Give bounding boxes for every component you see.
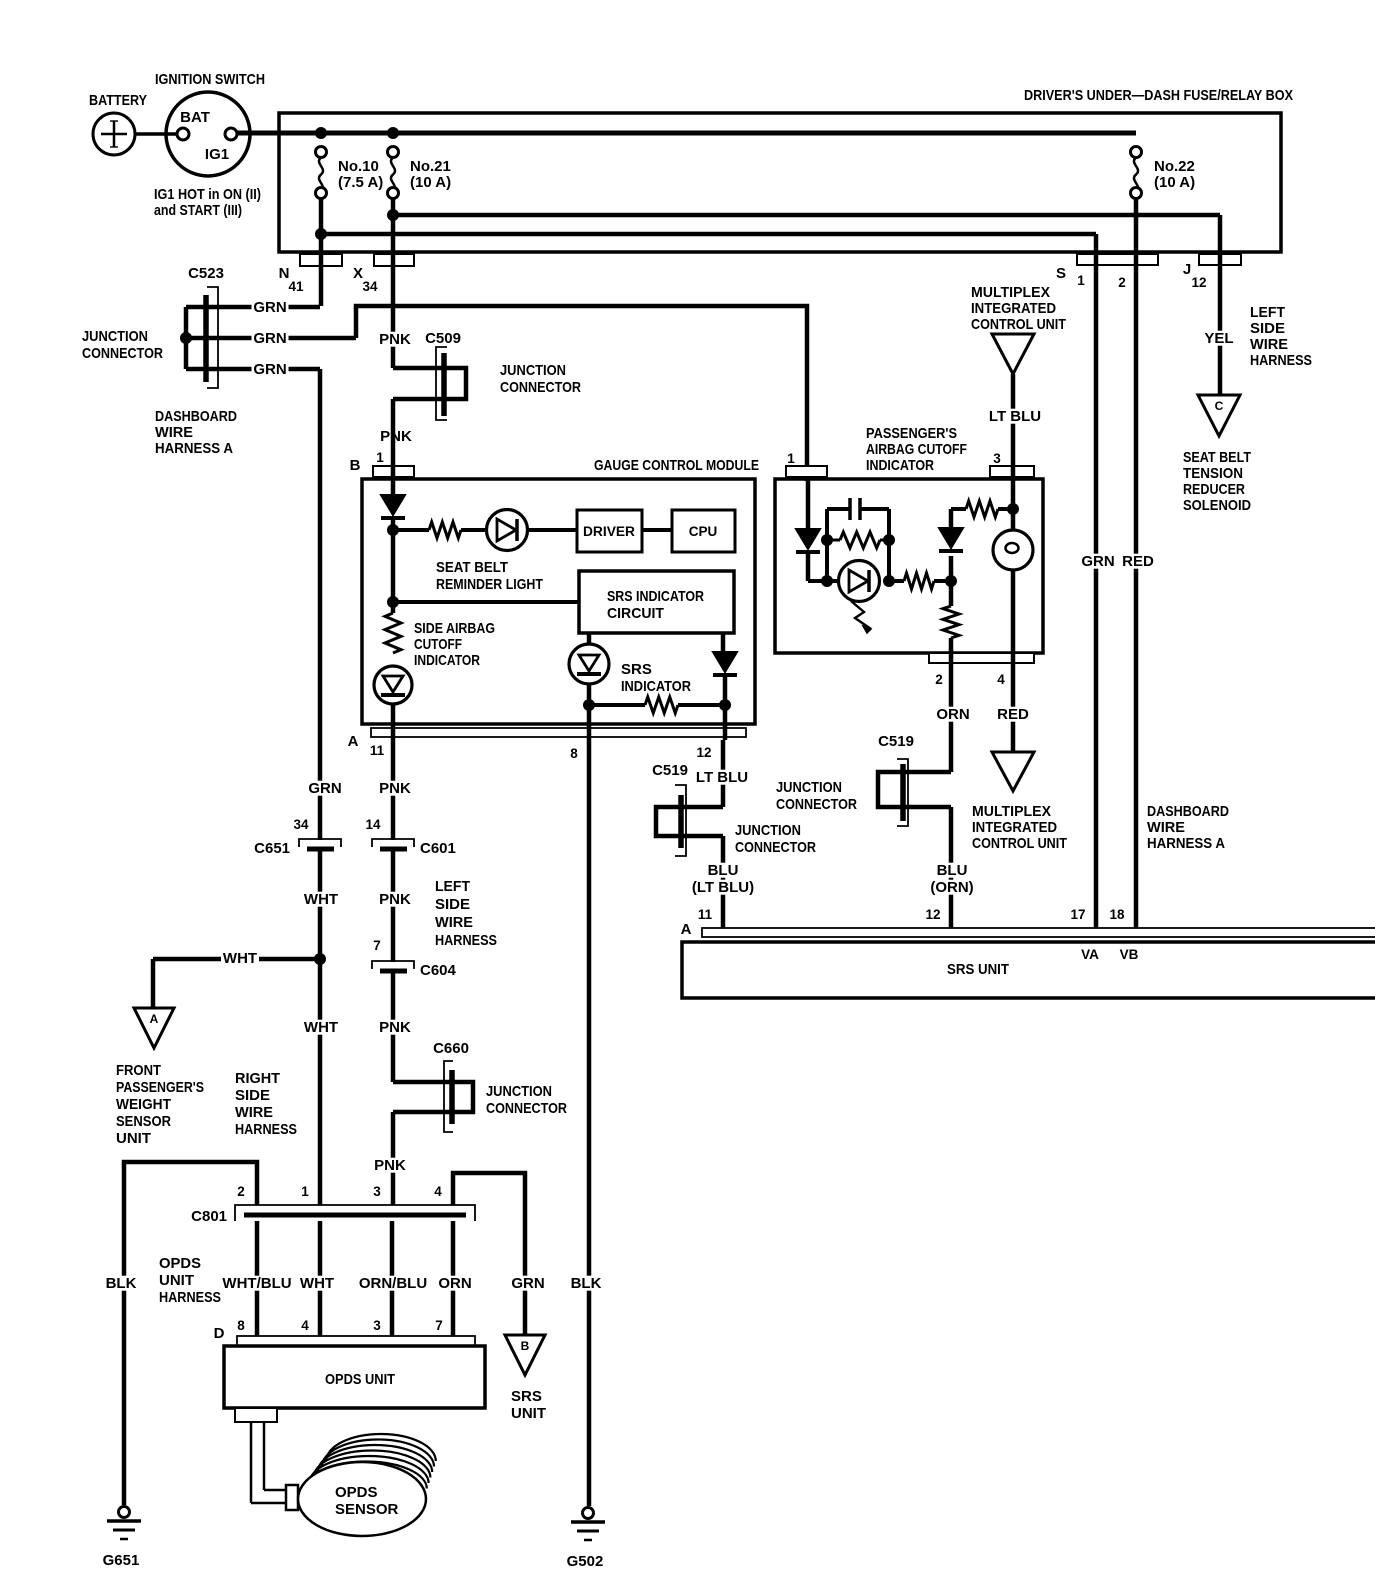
svg-text:LEFT: LEFT	[435, 878, 470, 895]
svg-text:HARNESS: HARNESS	[159, 1289, 221, 1306]
svg-text:G651: G651	[103, 1552, 140, 1569]
svg-text:2: 2	[935, 672, 943, 687]
svg-text:(7.5 A): (7.5 A)	[338, 174, 383, 191]
svg-text:8: 8	[237, 1318, 245, 1333]
svg-text:2: 2	[1118, 275, 1126, 290]
svg-text:INDICATOR: INDICATOR	[414, 652, 480, 669]
svg-text:RIGHT: RIGHT	[235, 1070, 280, 1087]
svg-text:SEAT BELT: SEAT BELT	[1183, 449, 1251, 466]
svg-text:A: A	[348, 733, 359, 750]
svg-text:No.21: No.21	[410, 158, 451, 175]
svg-text:34: 34	[293, 817, 309, 832]
svg-text:2: 2	[237, 1184, 245, 1199]
svg-text:HARNESS: HARNESS	[1250, 352, 1312, 369]
svg-text:ORN: ORN	[438, 1275, 471, 1292]
svg-text:12: 12	[1191, 275, 1206, 290]
svg-text:11: 11	[698, 907, 713, 922]
svg-text:12: 12	[925, 907, 940, 922]
svg-text:WIRE: WIRE	[235, 1104, 273, 1121]
svg-text:PNK: PNK	[379, 780, 411, 797]
svg-text:3: 3	[373, 1318, 381, 1333]
svg-text:4: 4	[997, 672, 1005, 687]
svg-text:PNK: PNK	[374, 1157, 406, 1174]
svg-text:YEL: YEL	[1204, 330, 1233, 347]
svg-text:OPDS: OPDS	[335, 1484, 378, 1501]
svg-text:No.22: No.22	[1154, 158, 1195, 175]
svg-text:TENSION: TENSION	[1183, 465, 1243, 482]
svg-text:GRN: GRN	[308, 780, 341, 797]
svg-text:SEAT BELT: SEAT BELT	[436, 559, 508, 576]
svg-text:B: B	[521, 1339, 530, 1353]
svg-text:A: A	[150, 1012, 159, 1026]
svg-text:1: 1	[376, 450, 384, 465]
svg-text:WEIGHT: WEIGHT	[116, 1096, 171, 1113]
svg-text:4: 4	[434, 1184, 442, 1199]
svg-text:BLU: BLU	[937, 862, 968, 879]
svg-text:REDUCER: REDUCER	[1183, 481, 1245, 498]
svg-text:C519: C519	[878, 733, 914, 750]
svg-text:CONNECTOR: CONNECTOR	[82, 345, 163, 362]
svg-text:DASHBOARD: DASHBOARD	[155, 408, 237, 425]
svg-text:DASHBOARD: DASHBOARD	[1147, 803, 1229, 820]
svg-text:VA: VA	[1081, 947, 1099, 962]
svg-text:DRIVER: DRIVER	[583, 524, 635, 539]
svg-text:4: 4	[301, 1318, 309, 1333]
svg-text:BLK: BLK	[106, 1275, 137, 1292]
svg-text:17: 17	[1070, 907, 1085, 922]
svg-text:D: D	[214, 1325, 225, 1342]
svg-text:MULTIPLEX: MULTIPLEX	[972, 803, 1051, 820]
svg-text:HARNESS A: HARNESS A	[155, 440, 233, 457]
svg-text:14: 14	[365, 817, 381, 832]
svg-text:JUNCTION: JUNCTION	[486, 1083, 552, 1100]
svg-text:SIDE AIRBAG: SIDE AIRBAG	[414, 620, 495, 637]
svg-text:8: 8	[570, 746, 578, 761]
svg-text:PNK: PNK	[380, 428, 412, 445]
svg-text:CUTOFF: CUTOFF	[414, 636, 462, 653]
svg-text:B: B	[350, 457, 361, 474]
svg-text:C523: C523	[188, 265, 224, 282]
svg-text:WHT: WHT	[304, 1019, 338, 1036]
svg-text:RED: RED	[997, 706, 1029, 723]
svg-text:SIDE: SIDE	[1250, 320, 1285, 337]
svg-text:(ORN): (ORN)	[930, 879, 973, 896]
svg-text:LEFT: LEFT	[1250, 304, 1285, 321]
svg-text:WIRE: WIRE	[155, 424, 193, 441]
svg-text:LT BLU: LT BLU	[989, 408, 1041, 425]
svg-text:JUNCTION: JUNCTION	[776, 779, 842, 796]
svg-text:RED: RED	[1122, 553, 1154, 570]
svg-text:INDICATOR: INDICATOR	[866, 457, 934, 474]
svg-text:(10 A): (10 A)	[1154, 174, 1195, 191]
svg-text:CONNECTOR: CONNECTOR	[735, 839, 816, 856]
svg-text:1: 1	[787, 451, 795, 466]
svg-text:INTEGRATED: INTEGRATED	[972, 819, 1057, 836]
svg-text:GRN: GRN	[511, 1275, 544, 1292]
svg-text:34: 34	[362, 279, 378, 294]
svg-text:PNK: PNK	[379, 331, 411, 348]
svg-text:CONTROL UNIT: CONTROL UNIT	[971, 316, 1066, 333]
svg-text:JUNCTION: JUNCTION	[735, 822, 801, 839]
svg-text:GRN: GRN	[253, 330, 286, 347]
svg-text:WIRE: WIRE	[435, 914, 473, 931]
svg-text:UNIT: UNIT	[159, 1272, 194, 1289]
svg-text:SOLENOID: SOLENOID	[1183, 497, 1251, 514]
svg-text:SIDE: SIDE	[435, 896, 470, 913]
svg-text:C604: C604	[420, 962, 457, 979]
svg-text:HARNESS A: HARNESS A	[1147, 835, 1225, 852]
svg-text:UNIT: UNIT	[511, 1405, 546, 1422]
svg-text:SRS: SRS	[621, 661, 652, 678]
svg-text:S: S	[1056, 265, 1066, 282]
svg-text:12: 12	[696, 745, 711, 760]
svg-text:C519: C519	[652, 762, 688, 779]
svg-text:OPDS: OPDS	[159, 1255, 201, 1272]
svg-text:UNIT: UNIT	[116, 1130, 151, 1147]
svg-text:INTEGRATED: INTEGRATED	[971, 300, 1056, 317]
svg-text:MULTIPLEX: MULTIPLEX	[971, 284, 1050, 301]
svg-text:(10 A): (10 A)	[410, 174, 451, 191]
svg-text:FRONT: FRONT	[116, 1062, 161, 1079]
svg-text:41: 41	[288, 279, 304, 294]
svg-text:WHT: WHT	[223, 950, 257, 967]
svg-text:JUNCTION: JUNCTION	[500, 362, 566, 379]
svg-text:GRN: GRN	[1081, 553, 1114, 570]
svg-text:SRS INDICATOR: SRS INDICATOR	[607, 588, 704, 605]
svg-text:HARNESS: HARNESS	[435, 932, 497, 949]
svg-text:C801: C801	[191, 1208, 227, 1225]
svg-text:C509: C509	[425, 330, 461, 347]
svg-text:PASSENGER'S: PASSENGER'S	[866, 425, 957, 442]
svg-text:IGNITION SWITCH: IGNITION SWITCH	[155, 71, 265, 88]
svg-text:JUNCTION: JUNCTION	[82, 328, 148, 345]
svg-text:CONNECTOR: CONNECTOR	[500, 379, 581, 396]
svg-text:GRN: GRN	[253, 299, 286, 316]
svg-text:IG1: IG1	[205, 146, 229, 163]
svg-text:1: 1	[1077, 273, 1085, 288]
svg-text:CPU: CPU	[689, 524, 718, 539]
svg-text:GRN: GRN	[253, 361, 286, 378]
svg-text:7: 7	[435, 1318, 443, 1333]
svg-text:CIRCUIT: CIRCUIT	[607, 605, 664, 622]
svg-text:7: 7	[373, 938, 381, 953]
svg-text:CONNECTOR: CONNECTOR	[486, 1100, 567, 1117]
svg-text:LT BLU: LT BLU	[696, 769, 748, 786]
svg-text:SRS: SRS	[511, 1388, 542, 1405]
svg-text:G502: G502	[567, 1553, 604, 1570]
svg-text:1: 1	[301, 1184, 309, 1199]
svg-text:and START (III): and START (III)	[154, 202, 242, 219]
svg-text:PNK: PNK	[379, 1019, 411, 1036]
svg-text:BATTERY: BATTERY	[89, 92, 147, 109]
svg-text:No.10: No.10	[338, 158, 379, 175]
svg-text:3: 3	[993, 451, 1001, 466]
svg-text:OPDS UNIT: OPDS UNIT	[325, 1371, 395, 1388]
svg-text:REMINDER LIGHT: REMINDER LIGHT	[436, 576, 543, 593]
svg-text:PASSENGER'S: PASSENGER'S	[116, 1079, 204, 1096]
svg-text:INDICATOR: INDICATOR	[621, 678, 691, 695]
svg-text:3: 3	[373, 1184, 381, 1199]
svg-text:GAUGE CONTROL MODULE: GAUGE CONTROL MODULE	[594, 457, 759, 474]
svg-text:DRIVER'S UNDER—DASH FUSE/RELAY: DRIVER'S UNDER—DASH FUSE/RELAY BOX	[1024, 87, 1293, 104]
svg-text:11: 11	[370, 743, 385, 758]
svg-text:CONNECTOR: CONNECTOR	[776, 796, 857, 813]
svg-text:VB: VB	[1120, 947, 1139, 962]
svg-text:BLK: BLK	[571, 1275, 602, 1292]
svg-text:WHT: WHT	[304, 891, 338, 908]
svg-text:WHT: WHT	[300, 1275, 334, 1292]
svg-text:HARNESS: HARNESS	[235, 1121, 297, 1138]
svg-text:BLU: BLU	[708, 862, 739, 879]
svg-text:IG1 HOT in ON (II): IG1 HOT in ON (II)	[154, 186, 261, 203]
svg-text:SIDE: SIDE	[235, 1087, 270, 1104]
svg-text:WIRE: WIRE	[1250, 336, 1288, 353]
svg-text:WIRE: WIRE	[1147, 819, 1185, 836]
svg-text:SENSOR: SENSOR	[335, 1501, 399, 1518]
svg-text:A: A	[681, 921, 692, 938]
svg-text:C660: C660	[433, 1040, 469, 1057]
svg-text:SENSOR: SENSOR	[116, 1113, 171, 1130]
svg-text:AIRBAG CUTOFF: AIRBAG CUTOFF	[866, 441, 967, 458]
svg-text:ORN: ORN	[936, 706, 969, 723]
svg-text:PNK: PNK	[379, 891, 411, 908]
svg-text:SRS UNIT: SRS UNIT	[947, 961, 1009, 978]
svg-text:18: 18	[1109, 907, 1125, 922]
svg-text:C: C	[1215, 399, 1224, 413]
svg-text:BAT: BAT	[180, 109, 210, 126]
svg-text:(LT BLU): (LT BLU)	[692, 879, 754, 896]
svg-text:C601: C601	[420, 840, 456, 857]
svg-text:ORN/BLU: ORN/BLU	[359, 1275, 427, 1292]
svg-text:CONTROL UNIT: CONTROL UNIT	[972, 835, 1067, 852]
svg-text:J: J	[1183, 261, 1191, 278]
svg-text:WHT/BLU: WHT/BLU	[222, 1275, 291, 1292]
svg-text:C651: C651	[254, 840, 290, 857]
